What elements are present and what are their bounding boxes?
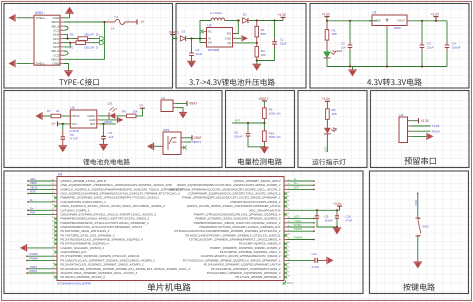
wire +4.3V to rail [326,17,328,21]
U5 pin names [72,114,96,126]
resistor R10 [263,129,267,144]
wire key bottom [417,237,419,262]
wire VBUS top to fuse [64,21,105,23]
wire C3 drop [421,21,423,42]
svg-text:D-: D- [30,198,33,202]
USB1 right pin stubs [60,18,64,64]
svg-text:RXD4: RXD4 [432,129,440,133]
svg-text:7: 7 [53,251,54,253]
svg-text:VOUT: VOUT [397,19,405,23]
no-connect X (U4 right pin 9) [284,213,287,216]
wire SHELL top to ground [17,17,31,19]
wire U4 left RXD4 [27,272,55,274]
ground (divider) [253,64,262,71]
no-connect X (U4 right pin 19) [284,255,287,258]
resistor R3 [325,21,329,49]
svg-text:31: 31 [288,205,290,207]
wire top rail right (ldo) [410,20,447,22]
svg-text:H2: H2 [400,113,404,117]
net port dot D+ r [313,184,315,186]
wire U4 left pin 1 [28,180,55,182]
power flag +3.3V (ldo) [435,17,437,21]
no-connect X (U4 left pin 11) [54,221,57,224]
junction R1 top [256,19,258,21]
wire DN1 to R2 [64,42,70,44]
svg-text:VBAT1: VBAT1 [259,97,269,101]
net port arrow D- [100,41,105,45]
wire VBAT1 to D2 [173,35,178,39]
svg-text:LD1: LD1 [107,101,113,105]
capacitor C7 [101,131,106,145]
wire R10 bottom [263,144,265,148]
svg-text:R5: R5 [70,32,74,36]
svg-text:33: 33 [288,213,290,215]
wire R2 to D- flag [91,42,100,44]
svg-text:MT3608: MT3608 [208,48,219,52]
svg-text:45: 45 [288,263,290,265]
title: 3.7->4.3V锂电池升压电路 [189,79,275,86]
connector USB1 body [34,15,60,65]
svg-text:VBAT: VBAT [189,102,197,106]
svg-text:D-: D- [96,45,99,49]
wire C4b bottom [446,51,448,67]
wire C10 top [336,210,338,213]
no-connect X (U4 left pin 15) [54,238,57,241]
svg-text:38: 38 [288,234,290,236]
wire U4 right TXD4 [287,222,315,224]
capacitor C2 [348,42,353,52]
section box: mcu [4,171,363,294]
wire D2 to U3 IN [187,38,207,40]
junction DN1 [69,42,71,44]
wire SHELL bottom to ground [17,63,31,65]
resistor R9 [126,114,137,118]
svg-text:SW2: SW2 [422,225,429,229]
wire C11 to ground [319,259,327,261]
wire DN2 to DP1 row [64,34,68,38]
svg-text:PWM1: PWM1 [294,227,303,231]
no-connect X (U4 right pin 21) [284,263,287,266]
svg-text:LED: LED [323,147,327,153]
svg-text:L1 10uH: L1 10uH [211,11,222,15]
net port dot PWM1 right [313,230,315,232]
wire VBAT1 down [263,101,265,106]
svg-text:+4.3V: +4.3V [322,12,331,16]
svg-text:FB: FB [227,41,231,45]
wire H2 pin3 RXD4 [411,130,431,132]
U5 pin stubs [97,116,100,124]
net port dot PWM4 [26,260,28,262]
net port dot TXD4 right [313,222,315,224]
no-connect X (U4 right pin 6) [284,200,287,203]
wire U4 right D- [287,180,315,182]
junction C1 top [273,19,275,21]
IC U3 body [207,28,233,48]
svg-text:U1: U1 [373,11,377,15]
wire GND pin1 up [64,13,70,18]
svg-text:SHELL: SHELL [36,16,46,20]
ground (C4) [187,61,196,68]
wire C9 top [316,210,318,213]
section box: key [370,171,469,294]
wire U4 left pin 2 [28,184,55,186]
wire rail to VDD [369,20,377,22]
ground (detect) [260,147,269,154]
wire C10 bottom [336,221,338,229]
U4 pin numbers [52,179,290,277]
svg-text:V+: V+ [140,104,144,108]
svg-text:+3.3V: +3.3V [322,97,331,101]
wire loop SBU2-CC1 [64,26,68,30]
svg-text:12: 12 [52,230,54,232]
USB1 left pin stubs SHELL [31,18,35,64]
no-connect X (U3 NC) [200,30,204,34]
junction C2 bottom [349,65,351,67]
wire C4b drop [446,21,448,42]
net port dot RXD4 [26,272,28,274]
ground (SHELL bottom) [9,60,16,67]
net port dot VBUS [27,189,29,191]
junction U1 gnd [386,65,388,67]
svg-text:20: 20 [52,196,54,198]
svg-text:46: 46 [288,267,290,269]
wire to ground (divider) [256,61,258,65]
wire H1 pin2 to gnd [176,108,183,113]
net port dot D+ [27,210,29,212]
no-connect X (U4 left pin 13) [54,230,57,233]
ground (U4 left arrow) [20,244,27,252]
svg-text:43: 43 [288,255,290,257]
capacitor C8 [246,130,251,139]
wire SW1 to VBAT [184,137,192,139]
svg-text:STC8H8K64U-45I-LQFP48: STC8H8K64U-45I-LQFP48 [57,281,91,285]
wire SW1 left to gnd [154,145,160,147]
svg-text:BCK: BCK [30,190,36,194]
USB1 pin names [36,16,61,66]
no-connect X (U4 left pin 10) [54,217,57,220]
IC U1 body [372,15,407,26]
resistor R2 [70,41,91,45]
wire LD2 to LED net [326,134,328,152]
wire U4 left PC4 [28,213,55,215]
svg-text:R7: R7 [47,109,51,113]
ground (C6) [59,146,68,153]
svg-text:D2: D2 [182,30,186,34]
LED LD2 (down) [324,128,337,134]
U3 pin names [208,30,231,45]
svg-text:P54: P54 [30,210,35,214]
wire U4 right RXD4 [287,226,315,228]
no-connect X (U4 right pin 17) [284,246,287,249]
power flag +4.3V [282,18,284,21]
capacitor C3 [420,42,425,52]
svg-text:1A: 1A [111,26,115,30]
wire to EN pin [200,39,207,43]
svg-text:+3.3V: +3.3V [333,202,342,206]
no-connect X (U4 right pin 5) [284,196,287,199]
wire U4 left D- [28,201,55,203]
no-connect X (U4 left pin 21) [54,263,57,266]
net port dot D- [27,201,29,203]
svg-text:10: 10 [52,238,54,240]
wire C8 bottom [248,140,264,147]
junction C9 [316,209,318,211]
svg-text:PWM4: PWM4 [30,256,39,260]
svg-text:P0.3/RxD4_2/SPWM6_3/CCP2_3: P0.3/RxD4_2/SPWM6_3/CCP2_3 [61,275,106,279]
svg-text:42: 42 [288,251,290,253]
svg-text:30: 30 [288,200,290,202]
svg-text:USB_DP: USB_DP [84,33,94,36]
svg-text:4.7uF: 4.7uF [312,265,320,269]
no-connect X (U4 right pin 7) [284,205,287,208]
svg-text:100nF: 100nF [234,134,243,138]
resistor R6 [263,106,267,121]
section box: charge [4,91,222,168]
junction C3 bottom [421,65,423,67]
svg-text:100K 1%: 100K 1% [269,111,282,115]
U4 left pin texts [61,179,191,279]
ground (SHELL top) [9,14,16,22]
svg-text:F1: F1 [115,15,119,19]
svg-text:22uF: 22uF [427,45,434,49]
ground (H1) [179,113,187,119]
svg-text:LTH7R: LTH7R [70,129,80,133]
junction gnd (detect) [263,146,265,148]
svg-text:GND: GND [52,62,60,66]
wire U3 GND [236,37,242,39]
wire DP2 to DN1 row [64,43,70,47]
junction VBUS [103,21,105,23]
wire to ground (ldo) [352,67,354,71]
svg-text:15K: 15K [133,109,138,113]
svg-text:2K: 2K [56,109,60,113]
junction C2 top [349,20,351,22]
no-connect X (U4 bottom) [283,282,286,285]
svg-text:BAT: BAT [90,122,96,126]
junction EN tap [199,37,201,39]
wire U4 right PWM4 [287,239,315,241]
wire top rail left (ldo) [327,20,377,22]
fuse F1 [105,21,115,23]
svg-text:100nF: 100nF [325,218,334,222]
junction gnd rail [256,59,258,61]
resistor R7 [51,114,61,118]
diode D2 [180,36,185,41]
MCU U4 body [57,177,284,281]
svg-text:9: 9 [53,242,54,244]
resistor R8 [326,107,330,121]
svg-text:11: 11 [52,234,54,236]
svg-text:TXD4: TXD4 [432,124,440,128]
net port arrow D+ [100,37,105,41]
svg-text:48: 48 [288,276,290,278]
wire C2 top drop [349,21,351,42]
svg-text:13: 13 [52,225,54,227]
svg-text:662K: 662K [394,26,401,30]
wire U4 gnd left [27,247,55,249]
power flag +3.3V (mcu) [339,206,341,210]
U3 pin stubs [204,32,236,43]
svg-text:USB1: USB1 [35,11,44,15]
U1 pin names [375,19,405,23]
capacitor C4 (100nF) [445,42,450,52]
resistor R5 [75,37,92,41]
capacitor C11 [313,258,319,263]
LED LD1 (left-pointing) [109,107,117,119]
wire C1 bottom to gnd rail [257,48,275,61]
SW1 pin stubs [160,138,184,148]
svg-text:H1: H1 [162,96,166,100]
inductor L1 [211,18,225,21]
svg-text:U4: U4 [58,172,62,176]
no-connect X (U4 right pin 16) [284,242,287,245]
svg-text:200K 1%: 200K 1% [269,135,282,139]
resistor R1 [255,21,259,43]
wire up to inductor rail [200,21,211,39]
switch SW1 body [163,132,181,155]
capacitor C1 [272,38,277,48]
title: 电量检测电路 [238,158,282,165]
svg-text:EN: EN [208,41,212,45]
wire SW1 to VBAT1 [184,141,192,143]
svg-text:47: 47 [288,271,290,273]
svg-text:+4.3V: +4.3V [278,13,287,17]
U4 right pin texts [170,179,281,279]
wire H2 pin4 gnd [411,135,428,137]
net port dot PWM1 [26,255,28,257]
wire to C8 [247,123,249,130]
no-connect X (U4 right pin 22) [284,267,287,270]
svg-text:VBAT1: VBAT1 [192,140,201,144]
junction C4 tap [190,37,192,39]
junction gnd (mcu caps) [336,226,338,228]
capacitor C6 [61,131,66,146]
capacitor C4 [189,48,194,62]
wire U4 left pin 4 [28,193,55,195]
svg-text:P5.1/TxD3_2/PWM5_4/PWM2N_3: P5.1/TxD3_2/PWM5_4/PWM2N_3 [235,275,280,279]
svg-text:28: 28 [288,192,290,194]
svg-text:+3.3V: +3.3V [431,12,440,16]
net port dot RXD4 right [313,226,315,228]
U4 bottom pin stub [285,281,287,284]
svg-text:4.7uF: 4.7uF [70,137,78,141]
net port dot BCK [27,193,29,195]
terminal V+ [136,19,138,24]
wire LD1 to R9 [115,115,126,117]
svg-text:100nF: 100nF [452,45,461,49]
title: 4.3V转3.3V电路 [367,78,422,85]
H1 pin stubs [173,104,176,108]
wire BAT net [100,123,117,125]
wire U4 left D+ [28,209,55,211]
wire D1 to +4.3V rail [249,20,283,22]
wire SW pin up [233,21,239,34]
ground (mcu caps) [333,228,341,235]
svg-text:RXD4: RXD4 [30,269,38,273]
no-connect X (U4 left pin 7) [54,205,57,208]
terminal VBAT1 [170,34,175,36]
wire U4 right PWM1 [287,230,315,232]
no-connect X (U4 right pin 14) [284,234,287,237]
junction C3 top [421,20,423,22]
wire +3.3V down [326,101,328,107]
wire V+ to VDD [58,123,71,125]
wire H1 pin1 to VBAT [176,103,187,105]
net port dot TXD4 [26,268,28,270]
capacitor C10 [335,214,339,221]
net port dot VBAT [27,184,29,186]
svg-text:R9: R9 [122,109,126,113]
U1 gnd pin glyph [386,18,389,22]
wire U4 left TXD4 [27,268,55,270]
wire bottom rail (ldo) [327,58,447,67]
svg-text:29: 29 [288,196,290,198]
svg-text:R2: R2 [70,45,74,49]
section box: batt detect [226,91,295,168]
ground (down arrow) [64,71,73,78]
SW1 internal symbol [168,136,177,150]
svg-text:SW: SW [226,32,231,36]
junction +3.3V [435,20,437,22]
svg-text:V+: V+ [141,20,145,24]
junction R3 top [326,20,328,22]
svg-text:15: 15 [52,217,54,219]
svg-text:U5: U5 [71,106,75,110]
power flag (up arrow) [65,7,74,14]
wire gnd to R7 [43,115,51,117]
junction C7 tap [102,123,104,125]
svg-text:LD2: LD2 [332,128,338,132]
ground (C11 right arrow) [327,257,334,265]
svg-text:NC: NC [208,30,212,34]
title: TYPE-C接口 [59,79,99,86]
no-connect X (U4 right pin 24) [284,276,287,279]
wire R9 to V+ [137,109,143,116]
wire U4 to C11 [287,259,314,261]
section box: ldo [310,4,469,89]
svg-text:62K: 62K [261,32,266,36]
net port dot BAT r [313,189,315,191]
no-connect X (U4 right pin 18) [284,251,287,254]
wire C1 top [274,21,276,38]
U4 left pin stubs [55,181,58,277]
net port dot LED right [313,218,315,220]
title: 运行指示灯 [312,159,345,165]
title: 按键电路 [403,283,435,290]
svg-text:USB_DM: USB_DM [84,46,94,49]
svg-text:47uF: 47uF [346,218,353,222]
svg-text:10K: 10K [332,112,337,116]
junction C10 [336,209,338,211]
wire VBUS bottom loop [64,22,105,59]
ground (key) [414,262,423,269]
title: 锂电池充电电路 [83,159,130,165]
ground (uart, right arrow) [427,133,434,140]
svg-text:+3.3V: +3.3V [421,119,430,123]
wire C9 bottom rail [317,221,337,228]
wire R8 to LD2 [326,121,328,128]
wire DP1 to R5 [64,38,75,40]
wire to C4 [191,39,193,48]
svg-text:14: 14 [52,221,54,223]
wire U4 right D+ [287,184,315,186]
svg-text:BAT: BAT [294,185,300,189]
junction C6 tap [62,123,64,125]
no-connect X (SW1) [183,146,187,150]
svg-text:1uF: 1uF [109,135,114,139]
svg-text:40: 40 [288,242,290,244]
ground (charger left) [36,112,43,120]
